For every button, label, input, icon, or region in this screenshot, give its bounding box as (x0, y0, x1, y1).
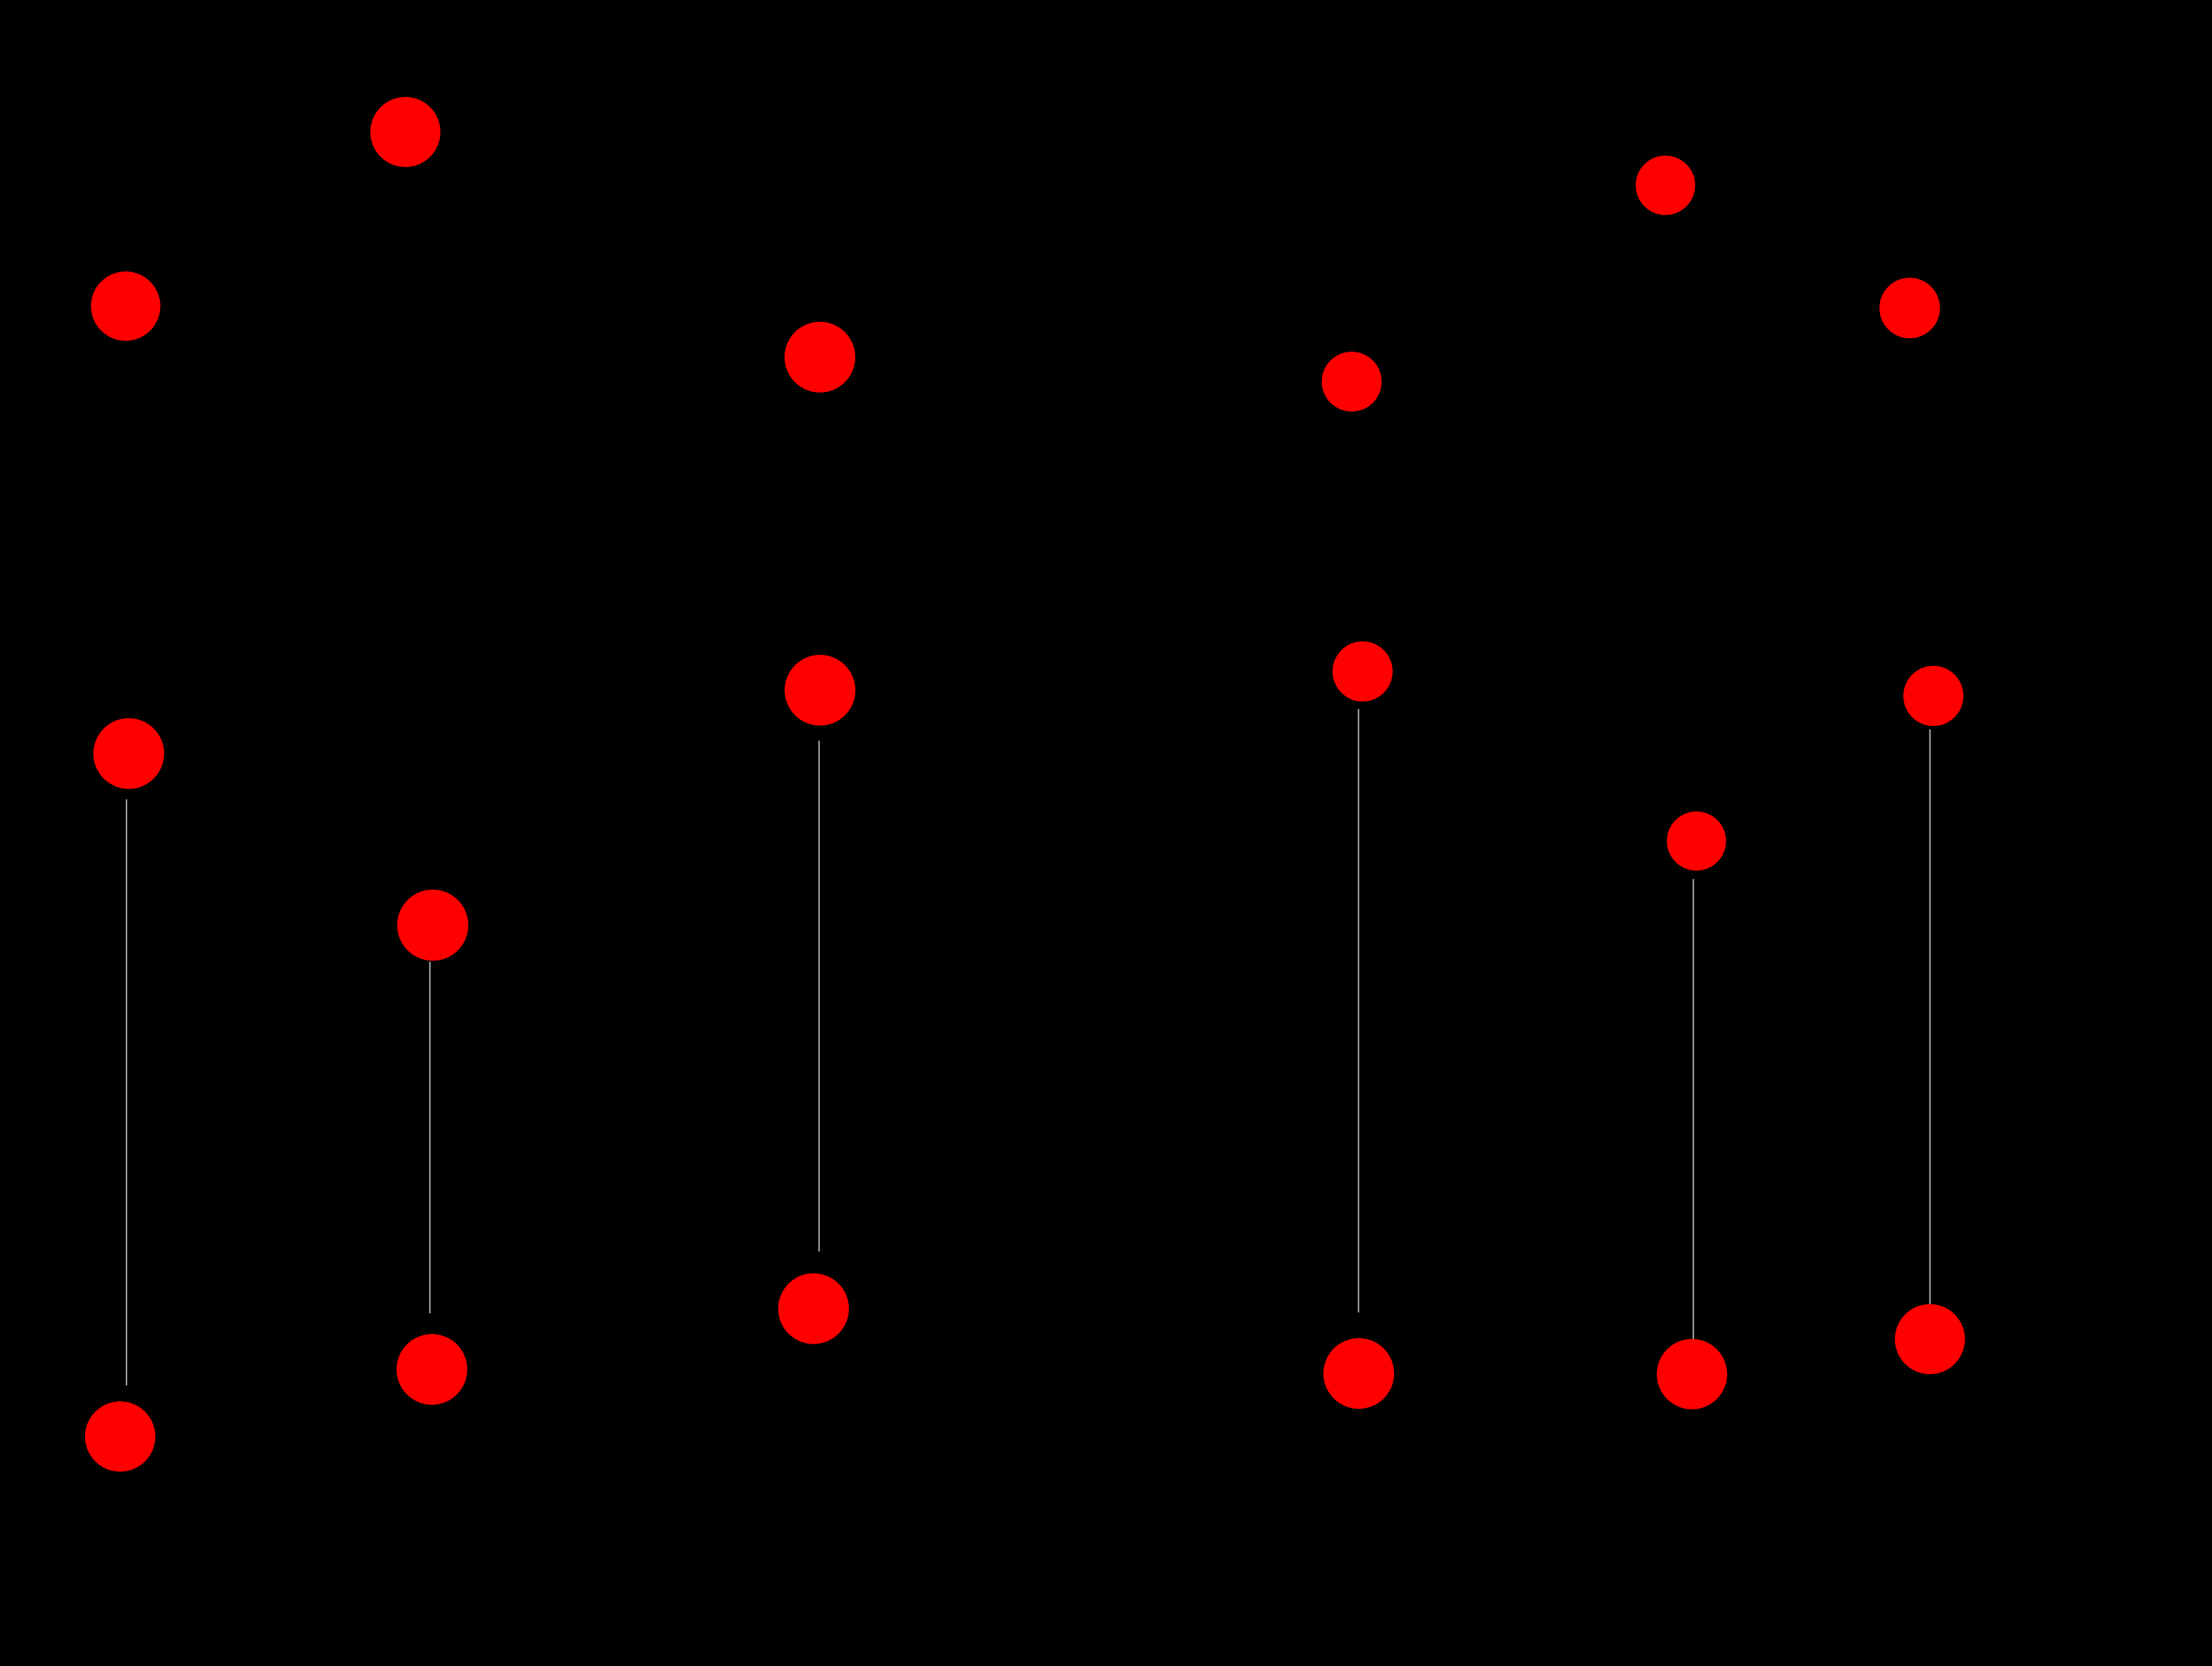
connector line col2 (429, 962, 431, 1314)
point L middle row col6 (1903, 666, 1963, 726)
point J middle row col4 (1332, 642, 1392, 701)
connector line col1 (126, 799, 127, 1385)
point M bottom row col1 (85, 1401, 155, 1471)
connector line col5 (1693, 879, 1694, 1339)
point D top row col4 (1322, 352, 1382, 412)
point A top row col2 (370, 97, 440, 167)
point K middle row col5 (1667, 812, 1726, 871)
point P bottom row col4 (1323, 1338, 1394, 1409)
point O bottom row col3 (778, 1273, 849, 1344)
point C top row col3 (785, 322, 855, 393)
point H middle row col2 (397, 890, 469, 961)
point I middle row col3 (785, 655, 855, 726)
point B top row col1 (91, 271, 161, 341)
point Q bottom row col5 (1657, 1339, 1727, 1409)
point E top row col5 (1636, 156, 1695, 215)
point G middle row col1 (93, 718, 164, 789)
point F top row col6 (1879, 278, 1940, 338)
point R bottom row col6 (1895, 1304, 1965, 1374)
point N bottom row col2 (397, 1334, 467, 1405)
connector line col6 (1930, 729, 1931, 1305)
connector line col3 (819, 741, 820, 1252)
connector line col4 (1358, 709, 1359, 1312)
